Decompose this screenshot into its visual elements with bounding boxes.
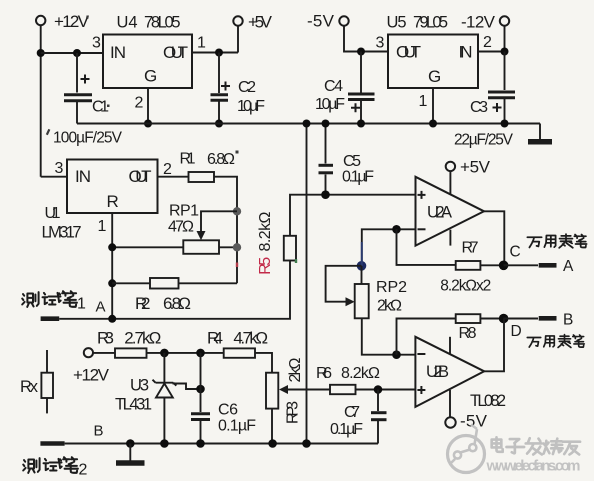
- regulator U1 LM317: [42, 160, 173, 242]
- node RP1 right (gray): [233, 243, 241, 251]
- svg-text:U2B: U2B: [426, 363, 449, 381]
- potentiometer RP2: [355, 279, 407, 318]
- wire R1 right and down to R2: [214, 177, 237, 284]
- svg-text:C: C: [510, 244, 521, 261]
- wire to bottom ground: [129, 444, 131, 461]
- probe bar test pen 1: [41, 316, 60, 321]
- svg-text:G: G: [428, 67, 441, 86]
- probe bar B: [539, 316, 557, 321]
- svg-text:+12V: +12V: [54, 12, 90, 31]
- svg-text:4.7kΩ: 4.7kΩ: [233, 328, 268, 347]
- wire U2A minus blue-tinted segment: [361, 242, 363, 266]
- wire R3 to R4: [147, 352, 224, 354]
- svg-text:2: 2: [163, 161, 172, 178]
- svg-text:www.elecfans.com: www.elecfans.com: [486, 458, 581, 475]
- node U5 G on ground bus: [429, 120, 437, 128]
- svg-text:U4: U4: [117, 14, 138, 32]
- terminal -5V top: [307, 12, 349, 31]
- capacitor C3: [454, 52, 515, 149]
- svg-text:C4: C4: [324, 78, 343, 95]
- wire RP1 right end: [219, 246, 237, 248]
- node RP1 wiper tap (gray): [233, 207, 241, 215]
- wire node C to probe A: [504, 264, 538, 266]
- node C2 on ground bus: [215, 120, 223, 128]
- svg-text:C3: C3: [470, 99, 488, 116]
- wire -5V to U5 OUT: [344, 26, 388, 52]
- wire R2 left: [112, 282, 150, 284]
- node C5 on ground bus: [322, 120, 330, 128]
- wire RP1 wiper: [201, 211, 237, 232]
- svg-text:R8: R8: [459, 325, 477, 342]
- capacitor C6: [191, 353, 256, 444]
- node C5 bottom junction: [321, 190, 330, 199]
- node RP3 bottom: [268, 439, 277, 448]
- pin U2A V+ wire: [449, 171, 451, 194]
- node C4 on ground bus: [357, 120, 365, 128]
- resistor Rx (device under test): [20, 350, 53, 413]
- wire R4 to RP3 top: [255, 353, 272, 373]
- svg-text:+5V: +5V: [460, 158, 491, 177]
- svg-text:A: A: [96, 299, 106, 316]
- svg-text:100µF/25V: 100µF/25V: [53, 130, 123, 147]
- svg-text:RP2: RP2: [376, 279, 407, 296]
- potentiometer RP1: [168, 203, 219, 254]
- pin U2B V- wire: [449, 390, 451, 418]
- svg-text:R4: R4: [207, 328, 223, 347]
- scan speck after C1: [107, 105, 110, 108]
- pin U2B V+ stub: [449, 337, 451, 354]
- svg-text:6.8Ω: 6.8Ω: [207, 151, 235, 168]
- shunt regulator U3 TL431: [115, 353, 201, 444]
- resistor R5 (vertical): [257, 211, 296, 274]
- svg-text:Rx: Rx: [20, 378, 39, 396]
- wire +12V to R3: [93, 352, 115, 354]
- svg-text:U5: U5: [387, 14, 407, 32]
- wire U2A minus input from RP2: [362, 229, 416, 265]
- svg-text:+5V: +5V: [248, 13, 273, 32]
- wire R8 left leg: [397, 319, 456, 355]
- ground (bottom): [116, 460, 145, 466]
- wire RP3 bottom: [271, 409, 273, 444]
- node U1 R / RP1: [108, 243, 116, 251]
- node U3 bottom: [160, 439, 169, 448]
- op-amp U2B: [415, 337, 484, 407]
- svg-text:RP1: RP1: [169, 203, 199, 220]
- svg-text:8.2kΩx2: 8.2kΩx2: [440, 278, 491, 295]
- wire RP3 wiper to R6: [288, 389, 330, 391]
- RP2 wiper arrowhead: [346, 297, 355, 306]
- wire +12V to U4 IN: [41, 52, 103, 54]
- node gnd vertical bottom: [302, 439, 311, 448]
- svg-text:47Ω: 47Ω: [168, 219, 194, 236]
- resistor R2: [135, 278, 191, 313]
- svg-text:TL082: TL082: [470, 392, 506, 410]
- scan speck after +12V: [86, 15, 89, 19]
- wire feedback to R7: [397, 229, 456, 265]
- node U3 top: [160, 349, 169, 358]
- pin U1 R wire down to node A: [111, 213, 113, 319]
- svg-text:R6: R6: [316, 365, 332, 382]
- svg-text:2: 2: [483, 34, 492, 51]
- svg-text:0.1µF: 0.1µF: [330, 421, 363, 438]
- capacitor C2: [211, 53, 266, 124]
- svg-text:2kΩ: 2kΩ: [287, 357, 304, 382]
- svg-text:TL431: TL431: [115, 396, 152, 414]
- wire U5 IN to -12V: [478, 26, 505, 52]
- terminal -12V top: [461, 13, 509, 32]
- node U2A feedback tap: [392, 225, 401, 234]
- wire RP2 bottom to U2B minus: [362, 318, 416, 354]
- wire node D to probe B: [504, 318, 538, 320]
- svg-text:3: 3: [376, 35, 385, 52]
- wire RP1 left to U1 R pin: [112, 246, 183, 248]
- svg-text:OUT: OUT: [396, 43, 421, 62]
- svg-text:U3: U3: [130, 377, 149, 395]
- wire node A line: [59, 261, 290, 319]
- wire +12V vertical to U1 IN: [40, 25, 42, 176]
- svg-text:-12V: -12V: [461, 13, 496, 32]
- resistor R1: [180, 151, 236, 183]
- svg-text:78L05: 78L05: [144, 14, 181, 32]
- scan speck before 100uF/25V: [46, 129, 51, 135]
- wire bus to ground symbol: [539, 124, 541, 140]
- node RP2 top (navy): [357, 261, 367, 271]
- watermark logo: [448, 425, 485, 473]
- node U4 G on ground bus: [144, 120, 152, 128]
- svg-text:0.1µF: 0.1µF: [218, 418, 256, 435]
- pin U2A V- stub: [449, 230, 451, 246]
- svg-text:22µF/25V: 22µF/25V: [454, 132, 514, 149]
- RP1 wiper arrowhead: [197, 231, 206, 240]
- node D: [499, 314, 509, 324]
- regulator U5 79L05: [376, 14, 493, 111]
- probe bar test pen 2: [40, 441, 64, 446]
- svg-text:3: 3: [92, 35, 101, 52]
- svg-text:U2A: U2A: [427, 204, 452, 222]
- wire RP2 wiper: [326, 266, 362, 302]
- svg-text:R7: R7: [462, 240, 479, 257]
- node C3 tap: [501, 48, 509, 56]
- svg-text:R2: R2: [135, 294, 151, 313]
- label 测试笔2: [23, 457, 87, 478]
- svg-text:C6: C6: [218, 402, 238, 419]
- resistor R8: [456, 314, 481, 342]
- svg-text:G: G: [144, 67, 157, 86]
- svg-text:C1: C1: [92, 99, 109, 116]
- pin U4 G wire: [147, 88, 149, 124]
- node C6 bottom: [196, 439, 205, 448]
- svg-text:8.2kΩ: 8.2kΩ: [257, 211, 274, 251]
- terminal +5V U2A: [446, 158, 491, 177]
- probe bar A: [539, 263, 557, 268]
- ground bus wire: [77, 123, 540, 125]
- wire U2B output: [484, 319, 504, 372]
- resistor R3: [97, 329, 161, 358]
- svg-text:10µF: 10µF: [237, 98, 265, 115]
- svg-text:6.8Ω: 6.8Ω: [163, 294, 191, 313]
- svg-text:C2: C2: [238, 79, 256, 96]
- node C7 tap: [374, 385, 383, 394]
- svg-text:79L05: 79L05: [413, 14, 448, 32]
- label 测试笔1: [22, 291, 86, 312]
- wire U1 OUT to R1: [158, 176, 189, 178]
- wire R7 to node C: [480, 264, 503, 266]
- svg-text:B: B: [563, 312, 573, 329]
- svg-text:B: B: [94, 423, 104, 440]
- svg-text:1: 1: [98, 218, 107, 235]
- svg-text:2kΩ: 2kΩ: [377, 298, 402, 315]
- svg-text:OUT: OUT: [163, 43, 188, 62]
- svg-text:R1: R1: [180, 151, 196, 168]
- node C2 tap: [215, 49, 223, 57]
- wire R6 to U2B plus: [356, 389, 416, 391]
- wire RP2 top: [361, 266, 363, 284]
- node +12V junction: [37, 49, 45, 57]
- op-amp U2A: [416, 177, 485, 246]
- svg-text:OUT: OUT: [129, 167, 152, 186]
- capacitor C4: [315, 52, 375, 124]
- capacitor C1: [53, 53, 123, 147]
- svg-text:+12V: +12V: [73, 366, 110, 385]
- svg-text:C5: C5: [343, 153, 361, 170]
- svg-text:IN: IN: [459, 43, 473, 62]
- terminal -5V U2B: [445, 412, 487, 431]
- wire R8 to node D: [480, 318, 503, 320]
- pin U5 G wire: [432, 88, 434, 124]
- watermark 电子发烧友: [492, 437, 580, 454]
- node C: [499, 261, 509, 271]
- svg-text:LM317: LM317: [42, 224, 82, 242]
- scan speck after R1 6.8 ohm: [236, 151, 239, 154]
- svg-text:A: A: [563, 258, 574, 275]
- node C4 tap: [357, 48, 365, 56]
- svg-text:2: 2: [79, 462, 88, 479]
- terminal +12V bottom: [73, 348, 110, 384]
- node R2 left: [108, 279, 116, 287]
- svg-text:R3: R3: [97, 329, 114, 348]
- node A junction: [108, 315, 116, 323]
- svg-text:U1: U1: [45, 205, 61, 222]
- scan speck green near R5: [295, 259, 297, 263]
- terminal +5V top: [233, 13, 272, 32]
- wire ground vertical (bus to bottom rail): [306, 124, 308, 444]
- ground (top right): [528, 139, 552, 145]
- svg-text:2: 2: [135, 95, 144, 112]
- terminal +12V top: [36, 12, 90, 31]
- node R8 tap: [392, 350, 401, 359]
- svg-text:-5V: -5V: [307, 12, 335, 31]
- node gnd vertical on bus: [303, 120, 311, 128]
- capacitor C5: [319, 124, 375, 195]
- wire +5V terminal down: [237, 26, 239, 53]
- wire bottom rail: [65, 443, 378, 445]
- node U3 ref on C6 line: [196, 385, 205, 394]
- resistor R4: [207, 328, 268, 358]
- svg-text:1: 1: [77, 296, 86, 313]
- svg-text:R: R: [107, 192, 119, 211]
- wire U2A output: [484, 211, 504, 265]
- svg-text:IN: IN: [110, 43, 126, 62]
- capacitor C7: [330, 390, 387, 444]
- svg-text:IN: IN: [75, 167, 91, 186]
- node C3 on ground bus: [501, 120, 509, 128]
- svg-text:D: D: [511, 323, 522, 340]
- svg-text:C7: C7: [344, 404, 360, 421]
- resistor R6: [316, 365, 380, 394]
- node C6 top: [196, 349, 205, 358]
- svg-text:R5: R5: [257, 257, 274, 275]
- svg-text:10µF: 10µF: [315, 96, 345, 113]
- resistor R7: [440, 240, 491, 295]
- svg-text:1: 1: [419, 93, 428, 110]
- wire +12V into U1 IN: [41, 176, 67, 178]
- svg-text:3: 3: [55, 160, 64, 177]
- RP3 wiper arrowhead: [279, 385, 288, 394]
- wire R2 right: [179, 282, 238, 284]
- node ground tap bottom: [126, 439, 135, 448]
- svg-text:2.7kΩ: 2.7kΩ: [124, 329, 161, 348]
- scan speck red on RP1 right line: [236, 263, 238, 268]
- node C1 tap: [73, 49, 81, 57]
- label 万用表笔 (lower): [527, 335, 584, 348]
- svg-text:8.2kΩ: 8.2kΩ: [341, 365, 380, 382]
- regulator U4 78L05: [92, 14, 206, 112]
- potentiometer RP3: [266, 357, 304, 424]
- svg-text:0.1µF: 0.1µF: [342, 169, 374, 186]
- wire R5 top to U2A plus input: [290, 195, 416, 236]
- svg-text:1: 1: [197, 35, 206, 52]
- label 万用表笔 (upper): [527, 234, 586, 248]
- svg-text:RP3: RP3: [285, 401, 302, 424]
- wire U4 OUT to +5V node: [192, 52, 238, 54]
